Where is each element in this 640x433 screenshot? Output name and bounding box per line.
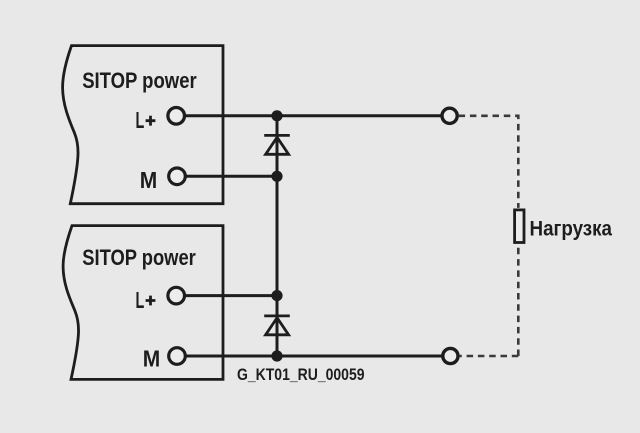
wire: U2 M to output node xyxy=(177,355,442,358)
load resistor R1 xyxy=(515,210,524,243)
diode V2 (across U2 output) xyxy=(264,316,290,335)
wire: U2 L+ to center rail xyxy=(177,294,278,297)
dashed wire: top output to load xyxy=(459,116,519,208)
power supply box U2 (bottom SITOP) xyxy=(63,226,223,380)
dashed wire: load to bottom output xyxy=(517,244,520,356)
svg-text:M: M xyxy=(143,345,161,371)
svg-text:SITOP power: SITOP power xyxy=(82,68,197,93)
wire: U1 L+ to output node xyxy=(177,114,442,117)
junction node: U1 L+ / rail xyxy=(271,110,282,121)
junction node: U1 M / rail xyxy=(271,171,282,182)
terminal L+ of U1 xyxy=(168,108,185,125)
svg-text:G_KT01_RU_00059: G_KT01_RU_00059 xyxy=(237,366,365,384)
svg-text:SITOP power: SITOP power xyxy=(82,245,196,270)
wire: vertical center rail xyxy=(276,116,279,356)
junction node: U2 L+ / rail xyxy=(271,290,282,301)
wire: U1 M to center rail xyxy=(177,175,278,178)
terminal M of U2 xyxy=(169,348,186,365)
output terminal - (bottom) xyxy=(443,348,458,363)
power supply box U1 (top SITOP) xyxy=(63,46,223,204)
svg-text:Нагрузка: Нагрузка xyxy=(530,217,613,240)
terminal M of U1 xyxy=(169,168,186,185)
svg-text:L: L xyxy=(136,287,145,313)
svg-text:M: M xyxy=(140,167,158,193)
diode V1 (across U1 output) xyxy=(264,135,290,154)
junction node: U2 M / rail xyxy=(271,350,282,361)
output terminal + (top) xyxy=(442,108,457,123)
svg-text:L: L xyxy=(136,107,145,133)
terminal L+ of U2 xyxy=(168,287,185,304)
